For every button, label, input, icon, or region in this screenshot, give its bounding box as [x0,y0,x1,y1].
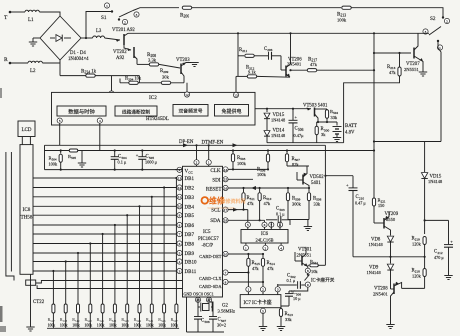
svg-text:CARD-CLX: CARD-CLX [199,276,222,281]
terminal T [9,11,12,14]
svg-text:47k: 47k [267,266,274,271]
svg-text:R209: R209 [160,69,169,74]
resistor R512 10k [308,264,309,266]
svg-text:S1: S1 [101,15,107,21]
svg-text:0.1 μ: 0.1 μ [118,160,127,165]
svg-text:TH58: TH58 [21,216,33,221]
svg-text:DB7: DB7 [185,233,195,238]
svg-text:2: 2 [196,161,198,165]
crystal G2 3.58MHz [198,306,200,308]
svg-text:SDA: SDA [210,218,221,224]
svg-text:+: + [136,153,139,158]
wire SCL net [228,209,248,211]
battery BATT 4.8V [336,122,338,126]
svg-text:2: 2 [262,288,264,292]
svg-text:IC7 IC卡卡座: IC7 IC卡卡座 [244,299,272,306]
svg-text:R521: R521 [97,317,105,323]
svg-text:双音频发号: 双音频发号 [179,108,203,115]
svg-text:4: 4 [179,260,181,264]
svg-text:18: 18 [224,219,228,223]
IC2 pin 13 top [233,92,238,97]
svg-text:0.47μ: 0.47μ [294,133,305,138]
svg-text:DP-EN: DP-EN [179,140,194,145]
svg-text:12: 12 [178,186,182,190]
svg-text:15: 15 [224,178,228,182]
wire R208 to VT203 [159,64,180,68]
svg-text:LCD: LCD [22,128,32,133]
resistor R211 [245,54,255,57]
wire T to L1 [10,11,25,13]
svg-text:4: 4 [99,119,101,123]
ground IC7 pin5 [259,326,267,328]
svg-text:R522: R522 [109,317,117,323]
wire R216 down to battery rail [344,76,400,143]
svg-text:120k: 120k [412,274,422,279]
svg-text:100k: 100k [158,324,166,328]
junction on main rail [237,32,239,34]
resistor R506 100k [267,151,269,155]
svg-text:1: 1 [208,161,210,165]
main rail from VT201 collector [128,32,429,34]
IC2 pin 1 [109,91,114,96]
svg-text:4.8V: 4.8V [345,131,355,136]
svg-text:IC2: IC2 [149,95,157,101]
resistor R500 3k [316,122,318,126]
wire VD14 to ground rail [266,137,268,143]
capacitor C509 [197,307,199,316]
svg-text:DB6: DB6 [185,224,195,229]
ground at VT203 emitter [190,62,198,64]
wire RESET net [228,187,309,189]
wire S2 contact 1 down right edge [438,41,441,142]
resistor R219 120k [423,237,426,245]
resistor R206 [182,6,192,9]
svg-text:A92: A92 [116,56,125,61]
capacitor C505 1000u [141,151,143,157]
IC2 pin 12 top [184,92,189,97]
svg-text:4: 4 [280,246,282,250]
svg-text:6: 6 [179,242,181,246]
IC IC8 TH58 outline [20,145,33,275]
wire R221 to VT209 base [373,206,375,223]
diode VD9 1N4148 [390,257,392,264]
wire CARD-CLX [228,272,248,274]
svg-text:0.1 μ: 0.1 μ [276,212,285,217]
svg-text:100k: 100k [48,324,56,328]
resistor R508 33k [308,188,310,192]
svg-text:IC5: IC5 [203,230,211,235]
svg-text:16: 16 [224,186,228,190]
inductor L1 [25,10,39,12]
ground rail bottom center [187,331,225,333]
svg-text:SDI: SDI [212,177,221,183]
IC2 pin 4 bottom [97,118,102,123]
IC2 sub-block data and clock [57,106,106,116]
IC7 bottom pin 5 [260,308,265,313]
svg-text:0.1 μ: 0.1 μ [287,278,296,283]
diode VD15 left [266,109,268,112]
svg-text:24LC16B: 24LC16B [255,238,273,243]
IC IC6 24LC16B [241,230,288,244]
watermark logo [202,197,209,204]
wire to IC2 pin 1 [111,76,113,91]
switch S1 [111,10,113,12]
IC2 sub-block line control [115,106,157,116]
svg-text:R519: R519 [72,317,80,323]
svg-text:R: R [4,57,8,63]
ground R508 R509 [288,219,309,221]
svg-text:100k: 100k [72,324,80,328]
svg-text:R518: R518 [60,317,68,323]
keypad ground rail [47,327,179,329]
wire C502 to IC7 pin3 [277,284,279,287]
wire lower rail with R234 [60,75,139,77]
svg-text:506: 506 [204,320,210,324]
wire SDI net [228,178,253,180]
svg-text:R527: R527 [171,317,179,323]
svg-text:13: 13 [234,93,238,97]
svg-text:R517: R517 [48,317,56,323]
wire VT207 base [374,52,411,54]
wire R212 [238,75,247,77]
svg-text:9: 9 [179,168,181,172]
svg-text:1N4004×4: 1N4004×4 [68,57,89,62]
svg-text:2: 2 [446,19,448,23]
svg-text:R526: R526 [158,317,166,323]
svg-text:L1: L1 [28,18,34,23]
svg-text:2: 2 [124,20,126,24]
svg-text:100k: 100k [134,324,142,328]
svg-text:维修资料网: 维修资料网 [221,198,246,205]
wire VT202 to R208 [137,63,149,65]
svg-text:7: 7 [225,271,227,275]
wire L2 to bridge bottom [42,62,60,64]
junction rail to VT207 [373,32,375,34]
wire C206 to VT206 base [272,55,281,57]
resistor R217 47k [307,69,317,72]
svg-text:DTMF-EN: DTMF-EN [202,141,224,146]
svg-text:10: 10 [178,205,182,209]
junction VD15 branch [424,219,426,221]
resistor R509 300k [287,188,289,192]
IC5 right pin circles [223,167,228,172]
svg-text:1000 μ: 1000 μ [145,160,158,165]
svg-text:100k: 100k [171,324,179,328]
IC2 sub-block DTMF dialer [173,105,208,117]
svg-text:3: 3 [179,269,181,273]
svg-text:10k: 10k [311,269,318,274]
svg-text:D1 - D4: D1 - D4 [70,51,86,56]
resistors R511 R510 47k pullups [242,187,244,189]
IC6 top pins [245,222,250,227]
Vcc rail [45,169,183,171]
wire bridge right to L3 [81,37,93,39]
wire R211 [238,55,244,57]
svg-text:CARD-DET: CARD-DET [199,254,222,259]
svg-text:8: 8 [179,223,181,227]
svg-text:2N5401: 2N5401 [287,62,301,67]
wire CLK net [228,168,268,170]
svg-text:DB10: DB10 [185,261,197,266]
svg-text:R211: R211 [239,48,248,53]
svg-text:DB11: DB11 [185,270,197,275]
svg-text:R520: R520 [85,317,93,323]
svg-text:BATT: BATT [345,124,357,129]
LCD display block [18,121,35,137]
resistor R218 120k [424,257,426,269]
svg-text:11: 11 [178,195,182,199]
svg-text:VD502: VD502 [310,175,325,180]
wire up from bridge output to S1 [86,12,112,39]
svg-text:免提供电: 免提供电 [221,108,241,115]
resistor R504b 100k near IC8 [60,149,62,151]
svg-text:1N4148: 1N4148 [271,118,286,123]
IC2 pin 5 bottom [57,118,62,123]
node junction at bridge output [85,37,87,39]
svg-text:R524: R524 [134,317,142,323]
junction VT206 collector rail [289,32,291,34]
wire CARD-DET pullup rail [228,253,263,255]
svg-text:IC6: IC6 [261,232,269,237]
wire VT208 collector to R218 [402,287,425,289]
resistor R505 [69,149,78,152]
diode VD14 left [266,119,268,130]
IC5 Vcc feed [175,169,183,171]
svg-text:DB5: DB5 [185,214,195,219]
IC5 top pins [194,160,199,165]
diode VD8 1N4148 [387,236,393,242]
svg-text:HT9245DL: HT9245DL [146,117,169,122]
svg-text:-8C/P: -8C/P [202,243,214,248]
svg-text:1: 1 [106,4,108,8]
svg-text:R525: R525 [146,317,154,323]
capacitor C506 0.47u [292,109,294,121]
rail charger top [267,108,311,110]
svg-text:100k: 100k [337,18,347,23]
wire OSC pins [197,297,199,307]
svg-text:2N5401: 2N5401 [373,292,389,297]
capacitor C504 0.1u [114,151,116,157]
connector CT22 wire [30,274,32,326]
left box edge verticals [44,145,46,169]
card lines to bottom-left bends [36,281,183,284]
svg-text:1N4148: 1N4148 [428,179,443,184]
svg-text:3.3k: 3.3k [148,58,157,63]
svg-text:8: 8 [307,269,309,273]
svg-text:470 μ: 470 μ [434,255,444,260]
svg-text:33k: 33k [285,317,292,322]
IC6 bottom pins [243,245,248,250]
wire VT206 collector branch to R217 [291,69,308,71]
svg-text:10: 10 [224,252,228,256]
IC5 left pin circles [177,167,182,172]
IC5 bottom pins [195,297,200,302]
capacitor C210 0.47u [325,175,353,177]
svg-text:150: 150 [378,203,384,208]
IC2 right pin to charger rail [255,108,267,110]
resistor R209 30k [161,81,171,84]
svg-text:1: 1 [245,246,247,250]
svg-text:100k: 100k [60,324,68,328]
svg-text:C206: C206 [264,47,273,52]
inductor L2 [28,61,42,63]
resistor R213 100k [342,6,352,9]
IC IC7 card seat [240,295,281,308]
IC IC2 HT9245DL outline [52,92,256,125]
svg-text:S2: S2 [430,16,436,22]
ground VT208 [386,324,394,326]
capacitor C206 [255,55,269,57]
svg-text:5: 5 [247,223,249,227]
svg-text:1N4148: 1N4148 [271,133,286,138]
resistor R216 47k [398,67,401,76]
svg-text:9: 9 [307,283,309,287]
svg-text:+: + [450,239,453,244]
wires LCD to IC8 [21,137,23,145]
left edge vertical wires [6,152,14,281]
svg-text:120k: 120k [412,242,422,247]
svg-text:2: 2 [265,246,267,250]
svg-text:9.1k: 9.1k [248,70,256,75]
svg-text:0.47 μ: 0.47 μ [355,201,366,206]
junctions on battery rail [373,149,375,151]
capacitor C507 30x2 [212,307,214,316]
svg-text:47k: 47k [310,62,318,67]
svg-text:12: 12 [185,93,189,97]
resistor R515 47k [247,254,249,258]
resistor R513 33k [281,306,289,308]
svg-text:线路通断控制: 线路通断控制 [122,109,150,116]
resistor R208 3.3k [149,63,159,66]
svg-text:1N4148: 1N4148 [367,270,382,275]
capacitor C212 470u [448,220,450,244]
IC2 sub-block handsfree supply [215,105,249,117]
ground VT207 emitter [419,71,427,73]
svg-text:100k: 100k [49,162,58,167]
IC7 top pins [246,287,251,292]
svg-text:CARD-SDA: CARD-SDA [199,284,222,289]
collector node wire [317,121,337,123]
svg-text:DB4: DB4 [185,205,195,210]
resistor R503 100k [232,151,234,154]
long vertical from DTMF rail to R512 [324,145,326,265]
svg-text:100k: 100k [146,324,154,328]
svg-text:9: 9 [179,214,181,218]
svg-text:CT22: CT22 [33,300,45,305]
svg-text:100k: 100k [257,172,267,177]
svg-text:1: 1 [248,288,250,292]
svg-text:2N5551: 2N5551 [404,67,420,72]
capacitor C502 0.1u [278,284,297,286]
rail B [45,150,375,152]
svg-text:100k: 100k [237,161,247,166]
wire S1 to R206 [133,8,179,11]
resistor R514 47k [262,254,264,258]
wire rail to R211 branch [237,33,239,76]
svg-text:7: 7 [179,232,181,236]
svg-text:VT201 A92: VT201 A92 [112,28,135,33]
wire R to L2 [10,62,28,64]
svg-text:GND OSC0 OSC1: GND OSC0 OSC1 [184,291,214,296]
svg-text:3: 3 [277,288,279,292]
ground CT22 [26,326,34,328]
svg-text:CLK: CLK [210,168,221,174]
svg-text:RESET: RESET [206,187,222,193]
wire SDA net [228,219,264,221]
svg-text:L2: L2 [30,69,36,74]
wire across battery box bottom [374,141,441,143]
svg-text:IC8: IC8 [23,207,31,213]
svg-text:3.58MHz: 3.58MHz [218,309,235,314]
svg-text:1N4148: 1N4148 [369,242,384,247]
svg-text:VT202: VT202 [113,50,127,55]
bridge bottom to lower rail [59,60,61,76]
bend to keypad rail [138,76,140,83]
svg-text:47k: 47k [247,201,254,206]
svg-text:13: 13 [178,176,182,180]
svg-text:5401: 5401 [311,181,321,186]
svg-text:30k: 30k [162,75,170,80]
svg-text:33k: 33k [331,115,338,120]
diode VD15 right [424,142,426,173]
svg-text:30×2: 30×2 [217,323,226,328]
wire R212 to VT206 emitter [257,75,290,78]
card switch [305,268,310,273]
svg-text:47k: 47k [389,70,396,75]
ground at bridge left [33,37,40,39]
wire R213 to S2 [352,8,444,17]
svg-text:L3: L3 [96,29,102,34]
svg-text:33k: 33k [314,202,321,207]
svg-text:10 μ: 10 μ [293,296,301,301]
resistor R212 9.1k [247,75,257,78]
charger ground rail [267,142,344,144]
svg-text:100k: 100k [109,324,117,328]
wire IC2 pin5 down to DP rail [59,123,61,145]
svg-text:47k: 47k [252,266,259,271]
wire card switch down [289,287,308,291]
wire L3 to VT201 [105,38,120,40]
inductor L3 [93,36,105,38]
terminal R [9,62,12,65]
svg-text:14: 14 [224,168,228,172]
ground R513 [277,326,285,328]
svg-text:5: 5 [179,251,181,255]
svg-text:506: 506 [298,128,304,132]
wire R217 to VT207 base [317,69,374,71]
svg-text:100k: 100k [121,324,129,328]
IC IC5 PIC16C57 outline [183,166,223,297]
top rail wire to R213 [192,7,341,9]
svg-text:DB8: DB8 [185,243,195,248]
svg-text:数据与时钟: 数据与时钟 [68,108,95,116]
svg-text:DB3: DB3 [185,196,195,201]
rail A DP/DTMF enable [45,144,326,146]
wire CARD-SDA [228,281,263,283]
svg-text:5: 5 [262,309,264,313]
resistor R234 1k [86,74,96,77]
svg-text:6: 6 [264,223,266,227]
keypad bus rows DB1-DB11 from IC8 to IC5 [33,177,183,179]
svg-text:100k: 100k [97,324,105,328]
resistor R204 10k [129,81,139,84]
switch rail horizontal [353,256,425,258]
svg-text:DB9: DB9 [185,252,195,257]
resistor R504 33k [325,110,328,119]
svg-text:IC卡座开关: IC卡座开关 [311,276,335,283]
svg-text:300k: 300k [292,202,302,207]
svg-text:www.jdwxzlw.com: www.jdwxzlw.com [208,206,235,210]
